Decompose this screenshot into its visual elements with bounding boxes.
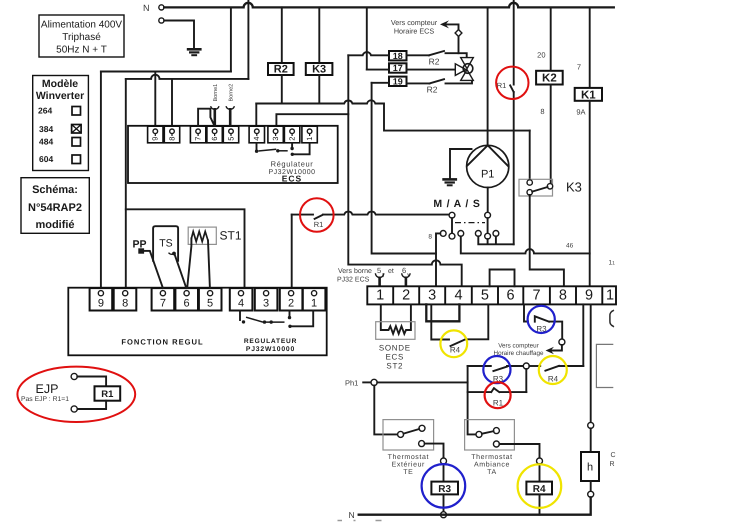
svg-text:R2: R2 [429, 57, 440, 67]
connector node (junction R3/R4/R1) [523, 363, 529, 369]
svg-text:7: 7 [193, 137, 202, 141]
svg-text:484: 484 [39, 137, 53, 147]
svg-text:R1: R1 [101, 389, 114, 400]
svg-text:PJ32W10000: PJ32W10000 [246, 346, 295, 353]
svg-text:8: 8 [540, 107, 544, 116]
wire M/A/S pole1 left contact to chauffage terminal 3 [436, 233, 440, 286]
svg-text:R2: R2 [274, 64, 288, 76]
svg-text:7: 7 [160, 298, 166, 310]
pressure switch PP [133, 239, 163, 289]
svg-text:4: 4 [252, 137, 261, 141]
svg-text:8: 8 [428, 234, 432, 241]
wire to valve top [446, 53, 467, 58]
ECS internal linkage (terminal 4-3 switch, dots) [255, 143, 288, 153]
FR internal linkage (2-1 contact) [288, 311, 313, 328]
svg-text:18: 18 [393, 51, 403, 61]
wire Ph1 drop to TE [374, 386, 397, 435]
svg-text:17: 17 [393, 63, 403, 73]
svg-text:6: 6 [210, 137, 219, 141]
wire Ph1 to relay block rail [377, 381, 467, 383]
svg-text:modifié: modifié [35, 219, 74, 231]
svg-text:2: 2 [288, 298, 294, 310]
relay coil R2 [268, 7, 294, 103]
wire M/A/S pole2 contact jumper (U link fed from x=513.7) [478, 236, 513, 244]
regulator ECS outer box [128, 126, 338, 183]
wire terminal 19 to trunk B [372, 82, 389, 84]
wire terminal 18 to trunk A (hop at x=366.8) [348, 52, 389, 55]
svg-text:7: 7 [577, 63, 581, 72]
wire pump earth lead [450, 149, 472, 179]
ECS terminal 9 [148, 126, 163, 143]
svg-text:K3: K3 [312, 64, 326, 76]
connector node (R3 bottom on N line) [441, 512, 447, 518]
contact Thermostat Ambiance TA [465, 420, 515, 476]
terminal box 19 [389, 76, 407, 86]
wire left riser x=126 to FONCTION REGUL terminal 8 [125, 79, 127, 287]
ground (top earth symbol) [187, 49, 202, 55]
FR terminal 9 [90, 288, 113, 310]
annotation circle yellow (R4 coil) [518, 464, 562, 508]
svg-text:1: 1 [606, 288, 614, 304]
ECS terminal 6 [207, 126, 222, 143]
svg-text:Thermostat: Thermostat [388, 453, 429, 461]
relay coil R4 (yellow circled) [526, 464, 552, 515]
svg-text:EJP: EJP [36, 382, 59, 396]
svg-text:1: 1 [305, 137, 314, 141]
wire terminal 17 to valve left [407, 69, 456, 71]
svg-text:Ph1: Ph1 [345, 379, 358, 388]
svg-text:TS: TS [159, 238, 172, 250]
wire TA to relay R4 [499, 444, 539, 458]
wire ECS terminal 4 riser [255, 104, 257, 126]
wire stub hook into chauffage terminal 1 [375, 273, 383, 286]
wire N bus (top horizontal, hops at x=248 and x=514) [164, 3, 614, 8]
svg-text:1: 1 [376, 288, 384, 304]
svg-text:9: 9 [98, 298, 104, 310]
svg-text:5: 5 [377, 266, 381, 275]
annotation circle blue (R3 coil) [422, 464, 466, 508]
wire terminal 17 branch [367, 69, 389, 71]
svg-text:Régulateur: Régulateur [271, 160, 314, 169]
annotation circle red (R1 lower) [485, 382, 511, 408]
svg-text:R1: R1 [314, 220, 324, 229]
ECS terminal 3 [268, 126, 283, 143]
svg-text:Horaire ECS: Horaire ECS [394, 27, 435, 36]
annotation circle blue (R3 top) [528, 306, 555, 333]
switch R3 (blue, terminal 7) [524, 304, 562, 339]
svg-text:Triphasé: Triphasé [62, 32, 101, 43]
svg-text:R4: R4 [533, 484, 546, 495]
svg-text:TA: TA [487, 469, 497, 476]
ECS terminal 4 [249, 126, 264, 143]
svg-text:3: 3 [428, 288, 436, 304]
ECS internal linkage (terminal 2-1 contact) [290, 143, 309, 156]
svg-text:50Hz N + T: 50Hz N + T [56, 45, 107, 56]
svg-text:ECS: ECS [386, 353, 405, 362]
hour meter h [581, 428, 599, 491]
label Regulateur PJ32W10000 ECS [268, 160, 315, 184]
label box Schema N54RAP2 modifie [21, 178, 89, 234]
wire stub hook into chauffage terminal 2 [402, 273, 410, 286]
wire branch y=209.3 to terminal 4 riser [126, 209, 245, 286]
terminal box 18 [389, 51, 407, 61]
switch R3 (blue, lower row) [468, 366, 524, 384]
svg-text:et: et [388, 268, 394, 275]
wire N bottom line [359, 497, 591, 514]
relay coil K3 [306, 7, 333, 103]
svg-text:2: 2 [402, 288, 410, 304]
wire ECS terminal 3 branch y=114.2 [276, 114, 348, 125]
svg-text:P1: P1 [481, 169, 494, 181]
svg-text:5: 5 [226, 137, 235, 141]
relay coil K2 [536, 7, 563, 183]
svg-text:11: 11 [609, 260, 616, 267]
wire earth lead from second terminal [164, 21, 194, 49]
switch R4 (yellow, lower row) [529, 366, 583, 384]
annotation circle yellow (R4 top) [440, 330, 467, 357]
mechanical link (dash-dot) [455, 222, 485, 224]
wire TE to relay R3 [425, 444, 444, 458]
svg-text:R3: R3 [438, 484, 451, 495]
svg-text:K1: K1 [581, 89, 596, 101]
connector node (R3 top) [441, 458, 447, 464]
svg-text:3: 3 [271, 137, 280, 141]
svg-text:TE: TE [403, 469, 413, 476]
wire from FONCTION REGUL terminal 2 up to R1 switch [291, 215, 293, 287]
ground (pump earth symbol) [442, 179, 457, 185]
svg-text:Alimentation 400V: Alimentation 400V [41, 20, 122, 31]
svg-text:FONCTION REGUL: FONCTION REGUL [121, 338, 203, 347]
svg-text:N°54RAP2: N°54RAP2 [28, 202, 82, 214]
wire M/A/S pole1 right contact to chauffage terminal 9 (hop at x=529.7) [461, 236, 590, 253]
svg-text:20: 20 [537, 51, 545, 60]
switch R4 (yellow, terminal 3 to 5) [431, 304, 488, 354]
wire K3 contact to chauffage terminal 8 (passes under y=253 with hop on that line) [530, 195, 564, 287]
svg-text:Winverter: Winverter [36, 90, 84, 102]
svg-text:384: 384 [39, 124, 53, 134]
connector diamond [455, 30, 462, 37]
svg-text:K3: K3 [566, 180, 582, 195]
svg-text:5: 5 [481, 288, 489, 304]
FR terminal 8 [114, 288, 137, 310]
svg-text:9A: 9A [576, 108, 585, 117]
svg-text:Pas EJP : R1=1: Pas EJP : R1=1 [21, 396, 69, 403]
svg-text:Vers compteur: Vers compteur [498, 343, 539, 350]
cut-off component bracket (right edge) [610, 311, 614, 327]
svg-text:2: 2 [287, 137, 296, 141]
wire to valve bottom [446, 80, 473, 83]
svg-text:ST1: ST1 [220, 229, 242, 243]
svg-text:ECS: ECS [282, 174, 302, 184]
jumper terminals 3-4 (below strip) [426, 304, 459, 321]
relay coil K1 [575, 7, 602, 286]
node Ph1 (phase terminal) [345, 379, 377, 388]
switch R1 (EJP cut-off, in red circle, top) [497, 0, 514, 244]
svg-text:M / A / S: M / A / S [433, 198, 480, 210]
FR terminal 3 [255, 288, 278, 310]
svg-text:R4: R4 [450, 346, 461, 355]
ECS terminal 5 [223, 126, 238, 143]
switch R2 contact (terminal 19 to valve) [407, 79, 445, 94]
label Vers compteur Horaire chauffage with arrow [494, 343, 562, 358]
ECS terminal 7 [190, 126, 205, 143]
FR terminal 7 [152, 288, 175, 310]
relay R1 (EJP relay) [71, 373, 120, 412]
wire diamond drop to valve feed [458, 37, 460, 53]
svg-text:8: 8 [167, 137, 176, 141]
FR terminal 2 [280, 288, 303, 310]
ECS terminal 1 [302, 126, 317, 143]
svg-text:Thermostat: Thermostat [471, 453, 512, 461]
FR terminal 5 [199, 288, 222, 310]
svg-text:6: 6 [507, 288, 515, 304]
switch R1 (red, lower row) [468, 369, 527, 408]
wire stub Borne1 (hook) into terminal 6 [211, 84, 219, 126]
svg-text:4: 4 [238, 298, 244, 310]
wire stub Borne2 (hook) into terminal 5 [226, 84, 234, 126]
connector node (h top) [588, 422, 594, 428]
wire bus y=78.9 (feeds ECS terminal 8) [126, 75, 249, 125]
svg-text:R4: R4 [548, 375, 559, 384]
svg-text:Ambiance: Ambiance [474, 461, 510, 469]
jumper terminals 5-6 (above strip) [490, 270, 515, 287]
wire terminal 9 drop to R4 row [582, 304, 584, 366]
cut-off text remnants (bottom edge) [338, 520, 382, 522]
svg-text:C: C [611, 452, 616, 459]
svg-text:Modèle: Modèle [42, 78, 78, 90]
svg-text:Extérieur: Extérieur [392, 461, 425, 469]
svg-text:SONDE: SONDE [379, 344, 411, 353]
contact Thermostat Exterieur TE [383, 420, 434, 476]
sensor ST1 (resistor) [187, 227, 242, 288]
svg-text:Borne1: Borne1 [213, 84, 219, 102]
svg-text:264: 264 [38, 106, 52, 116]
annotation circle red (R1 top) [496, 67, 528, 99]
node N (supply neutral terminal) [143, 3, 164, 23]
switch R2 contact (terminal 18 to valve) [407, 51, 445, 67]
svg-text:Schéma:: Schéma: [32, 184, 78, 196]
terminal box 17 [389, 63, 407, 73]
svg-text:9: 9 [151, 137, 160, 141]
svg-text:PJ32 ECS: PJ32 ECS [337, 277, 370, 284]
FR terminal 4 [230, 288, 253, 310]
annotation circle yellow (R4 lower) [539, 356, 567, 384]
svg-text:N: N [143, 3, 150, 13]
svg-text:604: 604 [39, 154, 53, 164]
svg-text:46: 46 [566, 243, 574, 250]
switch M/A/S pole 2 [475, 212, 498, 239]
switch R1 (in red circle, to M/A/S) with hops over trunks [292, 212, 450, 229]
svg-text:REGULATEUR: REGULATEUR [244, 338, 297, 345]
cut-off box (right edge) [596, 344, 613, 387]
ECS terminal 8 [164, 126, 179, 143]
connector node (h bottom) [588, 491, 594, 497]
ECS terminal 2 [284, 126, 299, 143]
svg-text:R2: R2 [427, 85, 438, 95]
pump P1 [467, 7, 509, 212]
annotation ellipse red (EJP) [17, 367, 135, 422]
svg-text:K2: K2 [542, 73, 557, 85]
svg-text:5: 5 [207, 298, 213, 310]
svg-text:R1: R1 [493, 399, 504, 408]
svg-text:8: 8 [122, 298, 128, 310]
svg-text:19: 19 [393, 76, 403, 86]
valve V1 (3-way mixing valve) [455, 58, 473, 81]
svg-text:9: 9 [585, 288, 593, 304]
svg-text:3: 3 [263, 298, 269, 310]
switch M/A/S pole 1 [440, 212, 463, 239]
FR terminal 6 [175, 288, 198, 310]
wire terminal 9/10 drop to hour meter h [590, 304, 592, 422]
label Vers borne 5 et 6 PJ32 ECS [337, 266, 408, 284]
wire rail x=467.6 (rows to TA) [468, 366, 476, 434]
FONCTION REGUL outer box [68, 288, 326, 356]
wire from top edge at x=248 down to bus y=79 (crosses N bus with hop) [247, 0, 249, 79]
svg-text:6: 6 [184, 298, 190, 310]
svg-text:N: N [349, 510, 355, 520]
svg-text:ST2: ST2 [386, 362, 403, 371]
thermostat TS [153, 226, 186, 288]
svg-text:Vers borne: Vers borne [338, 267, 372, 275]
annotation circle blue (R3 lower) [483, 356, 510, 383]
svg-text:R: R [610, 461, 615, 468]
wire drop from N bus x=366.8 to terminal 17 branch [366, 7, 368, 69]
wire drop from N bus at x=231 to bus y=71.5 [230, 7, 232, 71]
svg-text:1: 1 [311, 298, 317, 310]
wire bus y=71.5 (feeds ECS terminal 9) [101, 72, 231, 126]
connector node (to hour counter) [559, 339, 565, 345]
wire bus y=103.5 from ECS terminal 4 to K3 contact (hops at x=348,371) [256, 100, 529, 130]
jumper link terminal 7 to 6 [198, 109, 214, 126]
svg-text:Borne2: Borne2 [228, 84, 234, 102]
svg-text:4: 4 [454, 288, 462, 304]
svg-text:7: 7 [533, 288, 541, 304]
svg-text:8: 8 [559, 288, 567, 304]
sensor SONDE ECS ST2 [376, 304, 415, 370]
contact block K3 (auxiliary contact) [519, 131, 553, 196]
label box Modele Winverter with checkboxes [33, 76, 89, 171]
chauffage terminal strip (terminals 1-10) [367, 286, 616, 304]
annotation circle red (R1 mid) [300, 198, 334, 232]
FR terminal 1 [303, 288, 326, 310]
relay coil R3 (blue circled) [431, 464, 458, 512]
connector node (R4 top) [537, 458, 543, 464]
FR internal linkage (4-3 switch) [240, 311, 285, 324]
label box Alimentation 400V [39, 15, 124, 57]
svg-text:6: 6 [402, 266, 406, 275]
wire trunk A x=348.3 down to chauffage terminal 4 (hop over x=436) [348, 55, 461, 286]
label Vers compteur Horaire ECS with arrow [391, 18, 459, 36]
svg-text:h: h [587, 462, 593, 474]
wire trunk B x=371.6 down to junction (436,253.5) [372, 83, 436, 254]
wire left riser x=101 to FONCTION REGUL terminal 9 [100, 72, 102, 287]
